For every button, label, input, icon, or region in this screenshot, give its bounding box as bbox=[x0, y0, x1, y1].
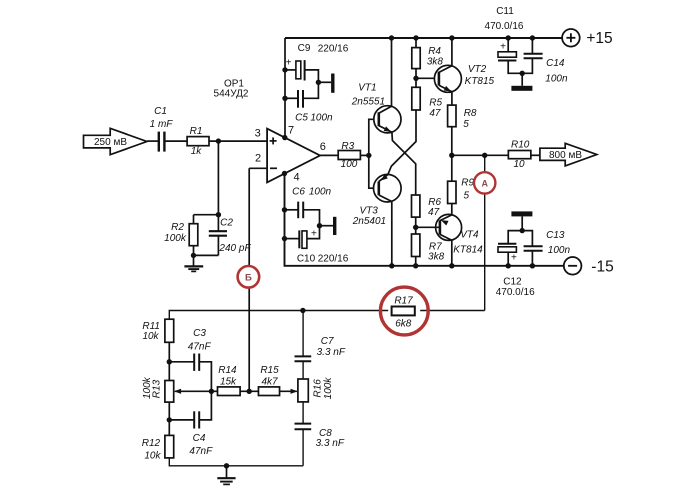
svg-text:47: 47 bbox=[428, 207, 440, 218]
svg-text:2n5551: 2n5551 bbox=[351, 97, 385, 108]
svg-text:5: 5 bbox=[463, 119, 469, 130]
svg-text:Б: Б bbox=[245, 273, 252, 284]
svg-text:47: 47 bbox=[429, 108, 441, 119]
svg-text:100k: 100k bbox=[164, 233, 187, 244]
svg-text:+15: +15 bbox=[586, 30, 612, 47]
svg-text:R10: R10 bbox=[511, 139, 530, 150]
svg-text:10: 10 bbox=[513, 159, 525, 170]
svg-text:R5: R5 bbox=[429, 98, 442, 109]
svg-text:1k: 1k bbox=[191, 146, 203, 157]
svg-text:15k: 15k bbox=[220, 377, 237, 388]
svg-text:4: 4 bbox=[293, 171, 299, 183]
svg-text:C1: C1 bbox=[154, 106, 167, 117]
svg-text:C7: C7 bbox=[321, 336, 334, 347]
svg-text:3: 3 bbox=[255, 127, 261, 139]
svg-text:250 мВ: 250 мВ bbox=[94, 137, 127, 148]
svg-text:+: + bbox=[311, 228, 317, 239]
svg-text:+: + bbox=[286, 58, 292, 69]
svg-text:А: А bbox=[481, 179, 488, 189]
svg-text:5: 5 bbox=[464, 191, 470, 202]
svg-text:100n: 100n bbox=[545, 73, 568, 84]
svg-text:100k: 100k bbox=[323, 377, 334, 400]
svg-text:R12: R12 bbox=[142, 438, 161, 449]
svg-text:R2: R2 bbox=[171, 222, 184, 233]
svg-text:3k8: 3k8 bbox=[427, 56, 444, 67]
svg-text:4k7: 4k7 bbox=[261, 377, 278, 388]
svg-text:100n: 100n bbox=[309, 186, 332, 197]
svg-text:470.0/16: 470.0/16 bbox=[496, 287, 535, 298]
svg-text:220/16: 220/16 bbox=[318, 43, 349, 54]
svg-text:47nF: 47nF bbox=[188, 341, 212, 352]
svg-text:VT2: VT2 bbox=[468, 64, 487, 75]
svg-text:VT4: VT4 bbox=[460, 230, 479, 241]
svg-text:1 mF: 1 mF bbox=[150, 119, 174, 130]
svg-text:-15: -15 bbox=[591, 258, 613, 275]
svg-text:C10: C10 bbox=[297, 254, 316, 265]
svg-text:C3: C3 bbox=[193, 328, 206, 339]
svg-text:R17: R17 bbox=[394, 295, 413, 306]
svg-text:100: 100 bbox=[341, 159, 358, 170]
svg-text:R8: R8 bbox=[464, 108, 477, 119]
svg-text:100n: 100n bbox=[310, 113, 333, 124]
svg-text:470.0/16: 470.0/16 bbox=[485, 21, 524, 32]
svg-text:100k: 100k bbox=[142, 376, 153, 399]
svg-text:KT814: KT814 bbox=[453, 245, 483, 256]
svg-text:3.3 nF: 3.3 nF bbox=[316, 438, 345, 449]
svg-text:544УД2: 544УД2 bbox=[214, 88, 249, 99]
svg-text:C5: C5 bbox=[295, 113, 308, 124]
svg-text:VT3: VT3 bbox=[360, 206, 379, 217]
svg-text:10k: 10k bbox=[144, 451, 161, 462]
svg-text:C6: C6 bbox=[292, 186, 305, 197]
svg-text:R1: R1 bbox=[190, 126, 203, 137]
svg-text:R3: R3 bbox=[341, 141, 354, 152]
svg-text:10k: 10k bbox=[142, 331, 159, 342]
svg-text:2n5401: 2n5401 bbox=[352, 216, 386, 227]
svg-text:3.3 nF: 3.3 nF bbox=[317, 347, 346, 358]
svg-text:C11: C11 bbox=[496, 6, 514, 17]
svg-text:C9: C9 bbox=[298, 43, 311, 54]
svg-text:VT1: VT1 bbox=[358, 82, 376, 93]
svg-text:100n: 100n bbox=[548, 245, 571, 256]
svg-text:C14: C14 bbox=[546, 58, 565, 69]
svg-text:3k8: 3k8 bbox=[428, 251, 445, 262]
svg-text:47nF: 47nF bbox=[189, 446, 213, 457]
svg-text:+: + bbox=[500, 41, 506, 52]
svg-text:220/16: 220/16 bbox=[318, 254, 349, 265]
svg-text:R13: R13 bbox=[152, 379, 163, 398]
svg-text:2: 2 bbox=[255, 153, 261, 165]
svg-text:C4: C4 bbox=[193, 433, 206, 444]
svg-text:C2: C2 bbox=[220, 218, 233, 229]
svg-text:R14: R14 bbox=[218, 365, 237, 376]
svg-text:C13: C13 bbox=[546, 230, 565, 241]
svg-text:+: + bbox=[511, 252, 517, 263]
svg-text:R9: R9 bbox=[461, 178, 474, 189]
svg-text:6k8: 6k8 bbox=[395, 319, 412, 330]
svg-text:R15: R15 bbox=[260, 365, 279, 376]
svg-text:6: 6 bbox=[320, 141, 326, 153]
svg-text:240 pF: 240 pF bbox=[218, 243, 251, 254]
svg-text:800 мВ: 800 мВ bbox=[549, 150, 582, 161]
svg-text:KT815: KT815 bbox=[465, 76, 495, 87]
svg-text:7: 7 bbox=[288, 125, 294, 137]
